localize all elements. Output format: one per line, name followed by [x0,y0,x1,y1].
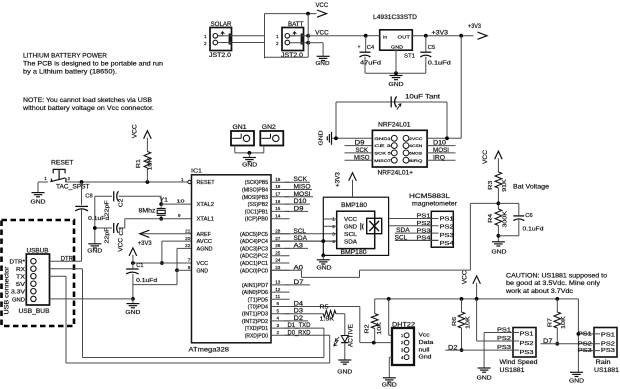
svg-text:MOSI: MOSI [294,192,311,198]
svg-text:(ICP)PB0: (ICP)PB0 [245,217,268,223]
svg-text:GND1: GND1 [374,136,391,141]
svg-text:9: 9 [178,213,181,218]
svg-text:GN1: GN1 [233,125,248,131]
svg-text:+3V3: +3V3 [336,171,342,187]
svg-text:4: 4 [277,316,280,321]
svg-text:(SS)PB2: (SS)PB2 [248,202,269,208]
svg-text:+3V3: +3V3 [432,30,449,36]
svg-text:VCC: VCC [197,261,209,267]
svg-text:IC1: IC1 [191,168,202,174]
svg-text:PS3: PS3 [601,348,615,354]
svg-text:PS3: PS3 [497,345,511,351]
svg-text:AREF: AREF [197,232,212,238]
svg-text:20: 20 [185,236,191,241]
svg-text:USB_BUB: USB_BUB [19,309,50,315]
svg-text:GND: GND [382,382,397,388]
svg-text:D10: D10 [294,199,308,205]
svg-text:(AIN1)PD7: (AIN1)PD7 [242,283,268,289]
svg-text:15: 15 [275,206,281,211]
svg-text:R2: R2 [364,325,370,334]
svg-text:GND: GND [389,82,404,88]
svg-text:Rain: Rain [596,360,611,366]
svg-text:10uF Tant: 10uF Tant [405,95,440,101]
svg-text:+3V3: +3V3 [468,24,482,30]
svg-text:10K: 10K [465,316,471,329]
svg-text:NOTE: You cannot load sketches: NOTE: You cannot load sketches via USB [23,97,152,104]
svg-text:(RXD)PD0: (RXD)PD0 [245,333,268,339]
svg-text:(AIN0)PD6: (AIN0)PD6 [242,290,268,296]
svg-text:1: 1 [204,34,207,39]
svg-text:2: 2 [204,41,207,46]
svg-text:23: 23 [275,265,281,270]
svg-text:(ADC4)PC4: (ADC4)PC4 [240,239,268,245]
svg-text:ST1: ST1 [404,53,415,59]
svg-text:(ADC3)PC3: (ADC3)PC3 [240,246,268,252]
svg-text:(ADC2)PC2: (ADC2)PC2 [240,254,268,260]
svg-text:(SCK)PB5: (SCK)PB5 [245,180,268,186]
svg-text:VCC: VCC [119,237,125,252]
svg-text:R6: R6 [452,317,458,326]
svg-text:HCM5883L: HCM5883L [409,193,451,200]
svg-text:1: 1 [276,34,279,39]
svg-text:SDA: SDA [294,236,308,242]
svg-text:GND: GND [569,378,584,384]
svg-text:4: 4 [332,239,335,244]
svg-text:10: 10 [177,198,186,203]
svg-text:1: 1 [181,177,184,182]
svg-text:22pF: 22pF [105,227,111,244]
svg-text:GND: GND [319,131,325,146]
svg-text:NRF24L01+: NRF24L01+ [378,169,414,176]
svg-text:RESET: RESET [51,160,74,167]
svg-text:GND: GND [344,225,357,231]
svg-text:D3: D3 [294,309,304,315]
svg-text:PS2: PS2 [440,225,454,231]
svg-text:R4: R4 [488,214,494,223]
svg-text:GND: GND [492,249,507,255]
svg-text:LITHIUM BATTERY POWER: LITHIUM BATTERY POWER [23,53,107,60]
svg-text:SCL: SCL [294,229,307,235]
svg-text:null: null [419,347,430,353]
svg-text:US1881: US1881 [500,368,526,374]
svg-text:MOSI: MOSI [433,148,449,154]
svg-text:RESET: RESET [197,180,216,186]
svg-text:PS2: PS2 [601,342,615,348]
svg-text:(MOSI)PB3: (MOSI)PB3 [242,195,268,201]
svg-text:0.1uFd: 0.1uFd [523,227,544,233]
svg-text:R7: R7 [548,318,554,327]
svg-text:D10: D10 [433,141,447,147]
svg-text:26: 26 [275,243,281,248]
svg-text:be good at 3.5Vdc. Mine only: be good at 3.5Vdc. Mine only [506,280,601,287]
svg-text:1: 1 [44,176,47,181]
svg-text:In: In [383,35,387,41]
svg-text:SCL: SCL [395,236,408,242]
svg-text:Data: Data [419,340,435,346]
svg-text:D2: D2 [294,316,304,322]
svg-text:5V: 5V [16,282,26,288]
svg-text:D4: D4 [294,302,304,308]
svg-text:8Mhz: 8Mhz [139,209,156,215]
svg-text:PS1: PS1 [520,332,534,338]
svg-text:(OC1)PB1: (OC1)PB1 [245,209,268,215]
svg-text:D2: D2 [448,345,458,351]
svg-text:D7: D7 [543,339,553,345]
svg-text:C1: C1 [136,263,143,269]
svg-text:by a Lithium battery (18650).: by a Lithium battery (18650). [23,69,117,76]
svg-text:3.3V: 3.3V [11,290,26,296]
svg-text:D9: D9 [355,141,366,147]
svg-text:GND: GND [197,268,209,274]
svg-text:D9: D9 [294,206,305,212]
svg-text:GND: GND [477,376,492,382]
svg-text:BMP180: BMP180 [341,202,368,209]
svg-text:PS4: PS4 [440,241,454,247]
svg-text:magnetometer: magnetometer [412,201,457,208]
svg-text:28: 28 [275,229,281,234]
svg-text:(ADC0)PC0: (ADC0)PC0 [240,268,268,274]
svg-text:D1_TXD: D1_TXD [288,323,312,329]
svg-text:ATmega328: ATmega328 [189,347,230,354]
svg-text:OUT: OUT [398,35,411,41]
svg-text:IRQ: IRQ [433,155,445,161]
svg-text:GND: GND [317,265,332,271]
svg-text:BMP180: BMP180 [341,249,368,256]
svg-text:6MOSI: 6MOSI [409,151,422,156]
svg-text:SCL: SCL [344,232,357,238]
svg-text:GND: GND [12,297,25,303]
svg-text:SDA: SDA [396,228,410,234]
svg-text:(ADC1)PC1: (ADC1)PC1 [240,261,268,267]
svg-text:25: 25 [275,250,281,255]
svg-text:PS3: PS3 [520,350,534,356]
svg-text:300K: 300K [502,211,508,228]
svg-text:1.5K: 1.5K [320,317,335,323]
svg-text:ACTIVE: ACTIVE [348,324,354,347]
svg-text:BATT: BATT [288,21,304,28]
svg-text:DTR: DTR [61,256,74,262]
svg-text:+3V3: +3V3 [138,241,153,247]
svg-text:Wind Speed: Wind Speed [500,360,538,366]
svg-text:6: 6 [277,301,280,306]
svg-text:(T1)PD5: (T1)PD5 [248,297,269,303]
svg-text:C3: C3 [119,227,125,236]
svg-text:SCK: SCK [294,177,308,183]
svg-text:2: 2 [277,330,280,335]
svg-text:17: 17 [275,192,281,197]
svg-text:TAC_SPST: TAC_SPST [56,185,90,191]
svg-text:GN2: GN2 [262,125,277,131]
svg-text:PS1: PS1 [578,332,592,338]
svg-text:GND: GND [125,310,140,316]
svg-text:PS2: PS2 [497,336,511,342]
svg-text:91K: 91K [502,179,508,192]
svg-text:C4: C4 [367,45,375,51]
svg-text:GND: GND [316,61,330,67]
svg-text:27: 27 [275,236,281,241]
svg-text:JST2.0: JST2.0 [209,53,232,59]
svg-text:GND: GND [31,200,46,206]
svg-text:PS3: PS3 [417,228,431,234]
svg-text:XTAL2: XTAL2 [197,202,215,208]
svg-text:18: 18 [275,184,281,189]
svg-text:PS2: PS2 [520,341,534,347]
svg-text:RX: RX [16,267,26,273]
svg-text:A0: A0 [294,265,304,271]
svg-text:D0_RXD: D0_RXD [288,330,312,336]
svg-text:VCC: VCC [344,217,357,223]
svg-text:CE 3: CE 3 [374,143,391,148]
svg-text:16: 16 [275,199,281,204]
svg-text:47uFd: 47uFd [360,60,381,66]
svg-text:AGND: AGND [197,246,213,252]
svg-text:12: 12 [275,287,281,292]
svg-text:PS3: PS3 [440,233,454,239]
svg-text:USBUB: USBUB [27,249,49,255]
svg-text:SDA: SDA [344,239,357,245]
svg-text:10K: 10K [561,316,567,329]
svg-text:4CSN: 4CSN [409,143,422,148]
svg-text:Gnd: Gnd [419,355,432,361]
svg-text:VCC: VCC [463,270,469,285]
svg-text:13: 13 [275,280,281,285]
svg-text:+: + [358,44,361,50]
svg-text:SOLAR: SOLAR [211,21,233,28]
svg-text:(ADC5)PC5: (ADC5)PC5 [240,232,268,238]
svg-text:3: 3 [277,323,280,328]
svg-text:2VCC: 2VCC [409,136,422,141]
svg-text:14: 14 [275,213,281,218]
svg-text:0.1uFd: 0.1uFd [428,60,451,66]
svg-text:R3: R3 [488,181,494,190]
svg-text:NRF24L01: NRF24L01 [378,122,411,129]
svg-text:21: 21 [185,229,191,234]
svg-text:CAUTION: US1881 supposed to: CAUTION: US1881 supposed to [506,272,608,279]
svg-text:Bat Voltage: Bat Voltage [513,185,550,191]
svg-text:0.1uFd: 0.1uFd [136,278,157,284]
svg-text:USB connector: USB connector [5,267,11,315]
svg-text:C2: C2 [119,199,125,208]
svg-text:10K: 10K [147,157,153,170]
svg-text:VCC: VCC [316,3,329,9]
svg-text:5: 5 [277,308,280,313]
svg-text:A3: A3 [294,243,304,249]
svg-text:2: 2 [68,176,71,181]
svg-text:SCK 5: SCK 5 [374,151,391,156]
svg-text:JST2.0: JST2.0 [281,53,304,59]
svg-text:GND: GND [87,249,102,255]
svg-text:8: 8 [188,265,191,270]
svg-text:VCC: VCC [483,149,489,164]
svg-text:VCC: VCC [133,124,139,139]
svg-text:(INT2)PD2: (INT2)PD2 [242,319,268,325]
svg-text:AVCC: AVCC [197,239,213,245]
svg-text:PS1: PS1 [440,216,454,222]
svg-text:2: 2 [276,41,279,46]
svg-text:XTAL1: XTAL1 [197,217,215,223]
svg-text:PS2: PS2 [578,341,592,347]
svg-text:PS4: PS4 [417,236,431,242]
svg-text:24: 24 [275,258,281,263]
svg-text:GND: GND [242,163,257,169]
svg-text:(MISO)PB4: (MISO)PB4 [242,188,268,194]
svg-text:PS3: PS3 [578,348,592,354]
svg-text:work at about 3.7Vdc: work at about 3.7Vdc [505,288,573,295]
svg-text:Y1: Y1 [160,198,169,204]
svg-text:3: 3 [332,232,335,237]
svg-text:10K: 10K [377,322,383,335]
svg-text:19: 19 [275,177,281,182]
svg-text:22: 22 [185,243,191,248]
svg-text:PS1: PS1 [497,328,511,334]
svg-text:The PCB is designed to be port: The PCB is designed to be portable and r… [23,61,164,68]
svg-text:US1881: US1881 [594,368,620,374]
svg-text:GND: GND [337,370,352,376]
svg-text:C6: C6 [525,213,532,219]
svg-text:R1: R1 [136,159,142,168]
svg-text:L4931C33STD: L4931C33STD [373,15,418,21]
svg-text:11: 11 [275,294,280,299]
svg-text:(INT1)PD3: (INT1)PD3 [242,312,268,318]
svg-text:(T0)PD4: (T0)PD4 [248,305,269,311]
svg-text:22pF: 22pF [104,199,110,216]
svg-text:C5: C5 [428,45,435,51]
svg-text:GND: GND [391,45,404,50]
svg-text:R5: R5 [320,305,329,311]
svg-text:MISO: MISO [354,155,370,161]
svg-text:8IRQ: 8IRQ [409,158,422,163]
svg-text:TX: TX [16,275,26,281]
svg-text:PS1: PS1 [601,332,615,338]
svg-text:MISO: MISO [294,185,311,191]
svg-text:PS2: PS2 [417,221,431,227]
svg-text:Vcc: Vcc [419,333,430,339]
svg-text:SCK: SCK [356,148,369,154]
svg-text:(TXD)PD1: (TXD)PD1 [245,326,268,332]
svg-text:without battery voltage on Vcc: without battery voltage on Vcc connector… [22,105,154,112]
svg-text:DTR*: DTR* [10,260,26,266]
svg-text:7: 7 [188,258,191,263]
svg-text:PS1: PS1 [417,214,431,220]
svg-text:D7: D7 [294,280,305,286]
svg-text:MISO7: MISO7 [374,158,391,163]
svg-text:C8: C8 [85,193,92,199]
